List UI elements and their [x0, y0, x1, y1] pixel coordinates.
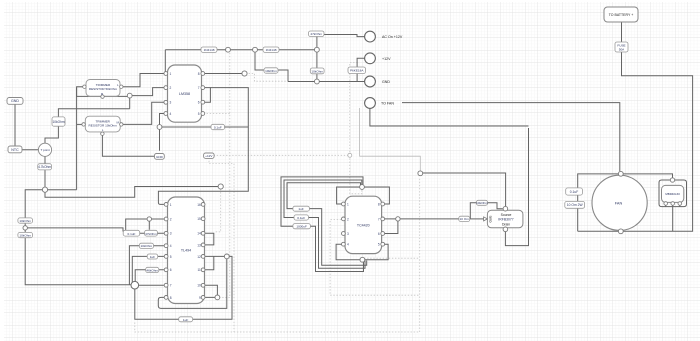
svg-text:P6KE18A: P6KE18A — [350, 69, 364, 73]
svg-text:16: 16 — [197, 203, 201, 207]
wire 1uF bypass left riser to VDD junction — [287, 183, 361, 209]
resistor R14 10 Ohm gate series — [459, 216, 470, 221]
svg-text:LM358: LM358 — [179, 92, 190, 96]
wire 0.1uF bypass left riser to VDD junction — [284, 180, 362, 218]
svg-text:50A: 50A — [619, 47, 625, 51]
wire gnd junction to TL494 pin7 — [135, 284, 164, 286]
svg-text:2: 2 — [170, 86, 172, 90]
wire 47kOhm vertical through divider junction to 10kOhm — [316, 37, 318, 69]
svg-text:47kOhm: 47kOhm — [310, 32, 322, 36]
resistor R3 4.7kOhm — [38, 164, 52, 170]
wire dashed +12V net from +12V label to supply circle and TC4420 VDD — [214, 63, 362, 194]
node endpoint LM358 pin8 — [242, 71, 247, 76]
svg-text:3: 3 — [170, 101, 172, 105]
wire 4.7kOhm to T junction — [44, 170, 46, 190]
connector TO FAN — [365, 98, 376, 109]
wire TL494 pin2 node rectangle — [126, 219, 164, 231]
wire TL494 pin10 to pin9 junction — [205, 285, 217, 297]
motor M1 FAN body — [592, 175, 647, 230]
svg-text:1: 1 — [347, 202, 349, 206]
wire dashed bottom rail to MOSFET gate net — [135, 178, 420, 332]
wire dashed from TC4420 pin2 input down and right to gate net vertical — [330, 220, 420, 296]
connector +12V — [365, 53, 376, 64]
wire T junction down then right to TL494 area — [45, 187, 218, 198]
wire 10kOhm pullup right end to source pin — [488, 203, 503, 209]
svg-text:1: 1 — [170, 72, 172, 76]
svg-text:TC4420: TC4420 — [357, 224, 370, 228]
resistor R11 10kOhm pin4 — [139, 243, 153, 248]
resistor R13 10kOhm gate — [476, 200, 487, 205]
diode D2 1N4148 — [263, 47, 279, 52]
wire gate row riser up to 10kOhm pullup — [470, 203, 476, 219]
IC U3 pins right — [381, 202, 385, 246]
trimmer R1 pins — [83, 85, 123, 98]
svg-text:0.1uF: 0.1uF — [128, 232, 136, 236]
svg-text:5: 5 — [198, 112, 200, 116]
wire 1uF bypass right riser to gnd loop — [309, 209, 366, 266]
svg-text:8: 8 — [170, 296, 172, 300]
svg-text:2: 2 — [347, 217, 349, 221]
svg-text:10kOhm: 10kOhm — [141, 244, 153, 248]
wire 47kOhm branch AC row — [324, 35, 365, 37]
svg-text:+12V: +12V — [382, 57, 391, 61]
svg-text:AC On +12V: AC On +12V — [382, 35, 403, 39]
wire drain pin down to drain row to TO FAN riser — [505, 128, 528, 246]
svg-text:14: 14 — [197, 232, 201, 236]
motor M1 bottom pin — [618, 229, 623, 234]
wire diode row with 1N4148 diodes to AC divider junction — [165, 49, 317, 51]
diode D3 MBR40L60 body — [662, 185, 684, 202]
svg-text:10kOhm: 10kOhm — [19, 219, 31, 223]
svg-text:RESISTOR 50kOhm: RESISTOR 50kOhm — [89, 87, 118, 91]
svg-text:IRFB3077: IRFB3077 — [498, 218, 513, 222]
wire fan snubber left branch 0.1uF and 10 Ohm 2W — [578, 174, 619, 231]
svg-text:1uF: 1uF — [298, 207, 303, 211]
svg-text:0.1uF: 0.1uF — [570, 190, 578, 194]
resistor R12 46kOhm pin6 — [146, 267, 159, 272]
svg-text:15: 15 — [197, 217, 201, 221]
svg-text:11: 11 — [197, 268, 201, 272]
capacitor C6 0.1uF bypass — [294, 215, 309, 220]
wire 10kOhm right end jog down to GND row — [278, 70, 288, 82]
wire trimmer R2 bottom pin down right to GND label — [102, 135, 154, 156]
svg-text:TO BATTERY +: TO BATTERY + — [609, 13, 634, 17]
svg-text:13: 13 — [197, 243, 201, 247]
op-amp U1 LM358 body — [168, 65, 202, 122]
connector AC On +12V — [365, 31, 376, 42]
svg-text:T point: T point — [40, 148, 49, 152]
svg-text:5: 5 — [170, 255, 172, 259]
wire fan top row right to MBR diode top — [623, 174, 672, 178]
IC U3 pins left — [342, 202, 346, 246]
svg-text:3: 3 — [347, 232, 349, 236]
wire TL494 pin8 loop down right up to pin12 junction — [158, 256, 227, 308]
resistor R5 10kOhm divider top — [18, 218, 33, 223]
trimmer R2 pins — [82, 123, 123, 136]
transistor Q1 gate arrow pin — [484, 217, 488, 221]
resistor R10 47kOhm feedback — [145, 230, 158, 236]
wire 1000uF bypass left riser to VDD junction — [281, 177, 363, 226]
svg-text:+12V: +12V — [205, 154, 213, 158]
wire 1000uF bypass right riser to gnd loop — [310, 226, 363, 271]
svg-text:10: 10 — [197, 284, 201, 288]
svg-text:7: 7 — [378, 217, 380, 221]
svg-text:0.1uF: 0.1uF — [297, 216, 305, 220]
wire diode row corner down to LM358 pin1 — [164, 50, 166, 72]
svg-text:6: 6 — [378, 232, 380, 236]
wire LM358 pin7 to pin6 feedback — [204, 88, 210, 103]
svg-text:12: 12 — [197, 255, 201, 259]
wire NTC to T-point — [22, 149, 39, 151]
wire GND row to GND connector — [288, 81, 365, 83]
wire source pin riser up to source row — [422, 173, 506, 206]
transistor Q1 IRFB3077 body — [487, 210, 523, 228]
svg-text:GND: GND — [11, 99, 19, 103]
capacitor C8 0.1uF snubber — [566, 188, 583, 195]
transistor Q1 drain pin — [503, 227, 508, 232]
IC U2 pins left — [164, 203, 168, 300]
svg-text:TO FAN: TO FAN — [381, 102, 394, 106]
IC U3 TC4420 body — [345, 196, 382, 253]
svg-text:3: 3 — [170, 232, 172, 236]
svg-text:Source: Source — [501, 213, 512, 217]
node dashed junction on +12V net — [348, 153, 352, 157]
svg-text:47kOhm: 47kOhm — [145, 232, 157, 236]
svg-text:6: 6 — [198, 101, 200, 105]
diode D3 bottom pins — [664, 202, 682, 206]
label TL494 pin numbers left — [170, 203, 172, 300]
wire T junction left to divider rail — [25, 190, 45, 218]
node endpoint of op-amp line above TL494 — [218, 184, 223, 189]
motor M1 top pin — [618, 171, 623, 176]
svg-text:MBR40L60: MBR40L60 — [665, 192, 680, 196]
IC U2 TL494 body — [168, 197, 205, 304]
wire second diode junction down to 10kOhm — [255, 50, 264, 70]
wire dashed from T-point endpoint circle down to TL494 pins13-14 — [214, 189, 221, 232]
svg-text:10 Om 2W: 10 Om 2W — [567, 203, 584, 207]
diode D4 P6KE18A TVS — [348, 67, 366, 74]
svg-text:10kOhm: 10kOhm — [311, 69, 323, 73]
svg-text:NTC: NTC — [11, 148, 19, 152]
node divider junction near trimmer R1 — [127, 93, 132, 98]
wire TL494 pin12 junction to pin12 — [205, 255, 227, 257]
svg-text:1N4148: 1N4148 — [266, 48, 277, 52]
svg-text:7: 7 — [170, 284, 172, 288]
label box NTC — [8, 146, 22, 153]
wire MBR center cathode pin down to +12V fan rail — [672, 205, 674, 232]
svg-text:8: 8 — [378, 202, 380, 206]
wire P6KE18A bottom to GND row — [356, 74, 358, 82]
op-amp U1 pins left — [164, 72, 168, 116]
wire divider rail down to TL494 gnd junction — [25, 237, 131, 284]
svg-text:7: 7 — [198, 86, 200, 90]
svg-text:10kOhm: 10kOhm — [19, 233, 31, 237]
thermistor T-point body — [38, 143, 51, 156]
node TL494 pin2 node junction — [147, 217, 151, 221]
node TL494 pin12 junction — [224, 254, 229, 259]
label TL494 pin numbers right — [197, 203, 201, 300]
capacitor C2 0.1uF feedback — [123, 230, 140, 236]
wire T junction right to riser up trimmer rail — [45, 189, 77, 191]
op-amp U1 pins right — [201, 72, 205, 116]
svg-text:9: 9 — [199, 296, 201, 300]
wire gnd junction down right through 1uF timing cap up to pin12 node — [135, 256, 232, 319]
wire 10kOhm bottom to GND row junction — [316, 74, 318, 82]
wire LM358 pin3 from trimmer R2 wiper — [121, 102, 164, 124]
label box +12V — [204, 153, 215, 158]
label TC4420 pin numbers right — [378, 202, 380, 246]
svg-text:1: 1 — [170, 203, 172, 207]
node gate junction circle — [418, 171, 423, 176]
wire LM358 pin7 output down to TL494 pin1 row — [158, 88, 248, 205]
wire LM358 pin8 to endpoint — [204, 73, 243, 75]
capacitor C5 1uF bypass — [293, 206, 310, 211]
connector GND — [365, 76, 376, 87]
svg-text:4.7kOhm: 4.7kOhm — [38, 165, 51, 169]
node T junction — [42, 187, 47, 192]
svg-text:10kOhm: 10kOhm — [265, 69, 277, 73]
wire 1uF to TL494 pin5 and riser to gnd junction — [132, 256, 164, 284]
wire light net from fan branch down to gate junction — [360, 108, 421, 171]
capacitor C7 1000uF bypass — [293, 224, 311, 229]
resistor R4 10kOhm vertical — [52, 117, 65, 126]
svg-text:5: 5 — [378, 243, 380, 247]
svg-text:1000uF: 1000uF — [296, 225, 307, 229]
capacitor C1 0.1uF under LM358 — [211, 124, 225, 129]
wire trimmer R1 wiper row to divider junction — [103, 95, 130, 98]
trimmer resistor R1 50kOhm body — [86, 80, 120, 97]
transistor Q1 source pin — [503, 206, 508, 211]
node TC4420 VDD junction — [360, 185, 365, 190]
svg-text:1uF: 1uF — [150, 255, 155, 259]
wire trimmer R2 left pin to left rail — [77, 123, 84, 125]
wire T-point bottom to 4.7kOhm — [44, 156, 46, 163]
wire dashed net from LM358 pin8 endpoint to GND rail — [246, 74, 289, 82]
wire riser from y108.8 up to divider junction — [129, 96, 131, 109]
capacitor C4 1uF timing — [179, 317, 193, 322]
wire trimmer R1 left pin loop to wiper — [77, 87, 103, 97]
svg-text:GND: GND — [382, 80, 390, 84]
label TC4420 pin numbers left — [347, 202, 349, 246]
wire fuse down right down to +12V fan rail — [578, 52, 693, 231]
svg-text:4: 4 — [170, 112, 172, 116]
wire 10kOhm to TL494 pin4 and riser to gnd junction — [129, 246, 164, 285]
wire TO FAN connector to fan top feed — [402, 103, 620, 172]
wire trimmer R1 right pin up to LM358 pin1 — [121, 74, 164, 87]
wire divider junction right then up to LM358 pin2 — [130, 88, 164, 96]
wire 0.1uF row from GND junction to LM358 pin7 net — [160, 126, 249, 128]
svg-text:6: 6 — [170, 268, 172, 272]
node junction between diodes D1 D2 — [226, 47, 231, 52]
svg-text:GND: GND — [156, 155, 164, 159]
wire T-point top to 10kOhm resistor — [45, 126, 58, 143]
node junction GND row — [315, 79, 320, 84]
fuse F1 50A — [615, 42, 628, 52]
svg-text:10kOhm: 10kOhm — [476, 201, 488, 205]
wire MBR outer pins stubs to loop — [666, 205, 680, 207]
node GND junction under LM358 — [157, 125, 162, 130]
svg-text:1uF: 1uF — [183, 318, 188, 322]
capacitor C3 1uF pin5 — [147, 254, 158, 259]
wire TL494 pin14 pin13 loop — [205, 233, 214, 245]
node TL494 pin9 junction — [215, 295, 220, 300]
resistor R15 10 Ohm 2W snubber — [565, 201, 585, 208]
wire 0.1uF 47kOhm feedback row to TL494 pin3 — [123, 232, 164, 234]
svg-text:1N4148: 1N4148 — [204, 48, 215, 52]
wire 10 Ohm to gate pin — [470, 218, 485, 220]
resistor R7 10kOhm after diodes — [264, 68, 278, 73]
resistor R9 10kOhm — [310, 68, 324, 74]
wire dashed net LM358 pin5 to diode midpoint and down to TL494 pin9 — [204, 50, 230, 298]
wire dashed from TC4420 gnd node to gate net vertical — [364, 257, 420, 259]
label LM358 pin numbers right — [198, 72, 200, 116]
svg-text:10kOhm: 10kOhm — [52, 120, 64, 124]
wire GND label to NTC — [14, 104, 16, 146]
node junction AC divider top — [315, 47, 320, 52]
label box GND under LM358 — [155, 154, 165, 160]
resistor R8 47kOhm — [309, 31, 325, 37]
wire 0.1uF bypass right riser to gnd loop — [309, 218, 366, 269]
wire TO FAN branch row — [370, 108, 529, 126]
connector TO BATTERY box — [604, 7, 638, 22]
diode D1 1N4148 — [201, 47, 217, 52]
node TC4420 pins 6 7 junction — [396, 217, 400, 221]
svg-text:TL494: TL494 — [181, 249, 191, 253]
wire 46kOhm to TL494 pin6 and riser to gnd junction — [135, 270, 164, 282]
wire TL494 pin11 to pin12 row — [205, 256, 214, 269]
svg-text:0.1uF: 0.1uF — [214, 125, 222, 129]
wire TC4420 pins 6 7 junction to 10 Ohm gate resistor — [383, 219, 459, 234]
wire dashed branch from +12V label down and right then down to bottom dashed rail — [209, 158, 234, 332]
svg-text:8: 8 — [198, 72, 200, 76]
wire 10kOhm resistor top up then right to divider node riser — [58, 109, 129, 117]
wire MBR anode outer loop — [659, 180, 687, 207]
resistor R6 10kOhm divider bottom — [18, 232, 33, 237]
IC U2 pins right — [201, 203, 205, 300]
svg-text:Gate: Gate — [489, 215, 493, 222]
wire TC4420 gnd bottom loop pins 4 and 5 — [336, 244, 388, 260]
wire +12V connector to P6KE18A top — [357, 58, 365, 67]
svg-text:2: 2 — [170, 217, 172, 221]
wire TO BATTERY to fuse — [621, 22, 623, 42]
node junction second diode to 10kOhm branch — [253, 47, 258, 52]
wire TC4420 VDD top loop pins 1 and 8 — [337, 187, 390, 204]
svg-text:4: 4 — [170, 244, 172, 248]
svg-text:Drain: Drain — [502, 223, 510, 227]
svg-text:4: 4 — [347, 243, 349, 247]
svg-text:FAN: FAN — [615, 202, 623, 206]
wire left rail from trimmer R1 area down to T junction — [76, 88, 78, 190]
node divider mid junction — [23, 226, 27, 230]
svg-text:10 Om: 10 Om — [460, 217, 470, 221]
node TC4420 GND junction — [360, 257, 365, 262]
diode D3 top pin — [670, 178, 674, 182]
wire LM358 pin4 to GND junction — [160, 114, 164, 151]
wire 10k-10k divider mid junction row to 0.1uF — [25, 223, 123, 232]
label LM358 pin numbers left — [170, 72, 172, 116]
trimmer resistor R2 10kOhm body — [85, 116, 120, 132]
svg-text:46kOhm: 46kOhm — [146, 268, 158, 272]
label box GND top left — [7, 98, 23, 105]
node TL494 ground junction — [131, 281, 139, 289]
